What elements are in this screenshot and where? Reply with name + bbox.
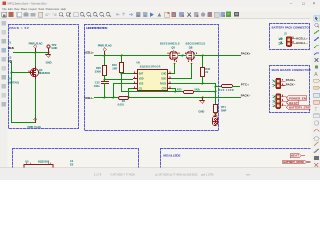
svg-text:Q5: Q5 [171,46,175,50]
toolbar icon library symbols [9,12,14,17]
junction PACK R30 [202,83,204,85]
toolbar icon zoom in [80,12,84,16]
toolbar icon bom [221,12,226,17]
right tool circle tool [314,121,318,125]
wire drain of Q3 [35,53,37,67]
junction R16 tap [121,55,123,57]
junction R30 tap [202,55,204,57]
toolbar icon zoom out [87,12,91,16]
svg-text:PWR_FLAG: PWR_FLAG [28,125,42,129]
svg-text:BQ29812RUGR: BQ29812RUGR [140,65,161,68]
svg-text:BATTERY PACK CONNECTO: BATTERY PACK CONNECTO [272,25,309,29]
toolbar icon run erc [150,13,154,17]
toolbar icon prefs [201,12,205,16]
right tool hier sheet [314,93,319,97]
svg-text:VBUS: VBUS [8,46,14,50]
toolbar icon undo [46,14,50,16]
svg-text:dx 247.0000 dy 77.4000 dist: dx 247.0000 dy 77.4000 dist 259.8310 [155,173,198,176]
wire source of Q3 down [35,79,37,123]
svg-text:HCELL−: HCELL− [296,41,308,45]
svg-text:NRF52_Battery_Board — Schemati: NRF52_Battery_Board — Schematic Editor [8,1,47,5]
toolbar icon save [2,12,7,17]
junction C15 bottom [104,97,106,99]
sheet box MAIN BOARD CONNECTOR [270,66,310,113]
svg-text:CTR: CTR [162,88,167,90]
svg-text:GND: GND [198,109,204,113]
right tool no connect [315,58,319,62]
menu bar [0,7,320,12]
pin numbers Q5 Q8 [168,53,197,62]
right tool delete tool [314,163,318,167]
svg-text:PWR_FLAG: PWR_FLAG [98,44,112,48]
toolbar icon annotate err [194,12,199,17]
wire CS riser [129,89,134,98]
toolbar icon find [59,13,62,16]
svg-text:✕: ✕ [313,1,316,5]
svg-text:BQ25306: BQ25306 [38,160,50,164]
toolbar icon zoom page [106,12,110,16]
node junction at PWR_FLAG tap [35,52,37,54]
pin stubs J2 [292,39,296,44]
left tool units in [1,39,6,44]
left tool cursor [1,57,6,62]
sheet box LI-ION PROTECTION [85,25,219,131]
right tool ruler tool [314,149,319,153]
right tool bus entry [314,53,319,55]
connector J3 [276,78,281,88]
ground symbol below TP2 [46,53,51,58]
left tool units mm [1,48,6,53]
IC U6 BQ29812RUGR body [138,70,168,91]
DNP cross marker [214,113,218,117]
toolbar icon nav up [122,13,125,16]
svg-text:BSC010NE2LS: BSC010NE2LS [160,42,180,45]
toolbar icon annotate clear [143,12,148,17]
wire VSS riser [114,84,134,98]
right tool arc tool [314,130,319,132]
wire PACK row [172,83,216,85]
title bar [0,0,320,7]
right tool pen tool [314,142,318,146]
svg-text:DNP: DNP [221,109,227,112]
gate stub arrows [173,63,192,65]
wire C15 down [104,84,106,98]
svg-text:GND: GND [46,60,52,64]
svg-text:U5: U5 [25,160,29,164]
wire R30 top [202,56,204,68]
pin number Q3 [29,71,30,73]
left tool hv lines [1,93,6,98]
svg-text:PACK: PACK [160,82,167,85]
toolbar icon paste [39,12,43,17]
left tool cross [1,66,6,71]
power flag PWR_FLAG (bottom) [34,118,37,123]
label HEAT (mcu) [290,154,301,158]
wire R30 bottom to PACK row [202,77,204,84]
transistor Q3 RLML6344 [30,67,39,79]
svg-text:542k: 542k [194,88,200,91]
svg-text:BATTERY_STATE: BATTERY_STATE [283,160,304,164]
thermistor RT1 DNP [214,105,218,113]
wire CTR stub [172,89,176,92]
pin marks J2 [279,38,283,45]
capacitor C15 100n [102,82,109,84]
toolbar icon print [24,13,29,16]
svg-text:330K: 330K [95,69,101,73]
junction mid FET [182,55,184,57]
schematic canvas [8,19,312,168]
right tool wire entry [314,46,319,48]
toolbar icon editor a [165,12,170,17]
wire FET right to PACK+ [195,55,241,57]
svg-text:grid 1.2700: grid 1.2700 [201,173,214,176]
svg-text:R26: R26 [96,66,101,70]
toolbar icon zoom fit [93,12,97,16]
right tool image tool [314,156,319,160]
pin numbers J2 [293,37,294,39]
svg-text:MCU & LEDS: MCU & LEDS [163,153,180,157]
label HEAT [286,100,298,104]
toolbar icon editor c [179,12,184,17]
pin names U6 [139,72,167,90]
svg-text:CS: CS [139,88,143,90]
wire R26 to C15 [104,76,106,82]
left toolbar [0,19,8,168]
pin arrows J3 J4 [275,82,277,107]
toolbar icon redraw [74,13,78,17]
toolbar icon new sheet [17,12,22,17]
svg-text:MAIN BOARD CONNECTOR: MAIN BOARD CONNECTOR [272,68,311,72]
right toolbar [311,15,320,168]
pin stubs J3 [281,81,286,85]
label BATTERY_STATE (mcu) [283,160,307,164]
resistor R2 0.001 shunt [119,97,129,100]
right tool polygon tool [314,136,319,140]
svg-text:U6: U6 [137,61,141,65]
left tool free angle [1,84,6,89]
svg-text:(WRTAG): (WRTAG) [8,81,19,85]
pin numbers U6 [134,71,170,88]
right tool wire tool [314,30,319,34]
svg-text:RT1: RT1 [221,106,226,109]
junction H2 tap [104,79,106,81]
svg-text:R23 100R: R23 100R [219,89,234,92]
wire ON to gate vertical [11,63,12,123]
svg-text:T: T [314,107,317,113]
testpoint TP2 GND [47,45,50,48]
left tool hierarchy [1,102,6,107]
label BATTERY_STATE [286,105,313,109]
wire RT1 to fuse [215,113,217,117]
junction GND tap [202,97,204,99]
left tool grid dots [1,30,6,35]
right tool select active [314,15,320,21]
svg-text:DSG: DSG [161,78,166,80]
svg-text:HEAT: HEAT [291,154,300,158]
svg-text:Q8: Q8 [189,46,193,50]
wire between FETs [178,55,186,57]
svg-text:C15: C15 [95,81,100,85]
wire CHG to gate Q5 [172,64,175,74]
wire R16 bottom to BAT and down [121,73,123,92]
resistor R23 100R [222,85,233,88]
toolbar icon editor b [171,12,176,17]
junction BAT drop [128,97,130,99]
svg-text:PACK−: PACK− [286,82,296,86]
toolbar icon annotate [136,12,141,17]
svg-text:100n: 100n [94,84,100,88]
wire rail 91 [122,91,216,93]
right tool highlight net [315,23,318,26]
left tool hidden pins [1,75,6,80]
sheet box BATTERY PACK CONNECTOR [270,24,310,50]
svg-text:BATTERY_STATE: BATTERY_STATE [289,106,313,110]
toolbar icon find replace [66,13,69,16]
toolbar icon pcb editor [226,12,231,17]
toolbar icon fields table [214,12,219,17]
pin arrows J2 [281,38,283,43]
status bar [0,168,320,180]
wire branch to R23 [216,86,222,88]
toolbar icon redo [52,14,56,16]
svg-text:POWER_EN: POWER_EN [289,96,306,100]
svg-text:Z 2.79: Z 2.79 [94,173,102,176]
junction R26 tap [104,55,106,57]
junction CTR rail [175,91,177,93]
svg-text:HEAT: HEAT [289,101,298,105]
svg-text:VDD: VDD [139,78,144,80]
svg-text:PACK+: PACK+ [241,52,251,56]
svg-text:HCELL+: HCELL+ [296,37,308,41]
sheet box VBUS [9,25,79,129]
svg-text:P1: P1 [8,40,12,44]
ground symbol box B [200,98,205,104]
svg-text:VCELL−: VCELL− [84,96,94,100]
svg-text:VBUS = 5V: VBUS = 5V [9,26,30,30]
resistor R25 542k [184,91,194,94]
right tool global label [314,79,320,82]
wire RT1 column [215,84,217,105]
wire VBUS rail [14,52,49,54]
wire bottom rail of sheet A [12,118,36,123]
toolbar icon nav back [116,13,120,16]
pin marks J3 [273,80,275,87]
connector J4 [276,94,281,109]
pin marks J4 [273,96,275,107]
svg-text:R25: R25 [177,88,182,91]
svg-text:X 247.0000 Y 77.4000: X 247.0000 Y 77.4000 [110,173,135,176]
wire H2 to chip VSS [105,79,133,81]
label POWER_EN [286,96,306,100]
svg-text:RLML6344: RLML6344 [39,71,51,75]
top toolbar [0,12,320,20]
svg-text:20R: 20R [112,66,117,70]
svg-text:PACK+: PACK+ [286,78,296,82]
svg-text:ES: ES [70,163,74,166]
wire VCELL+ rail [95,55,170,57]
toolbar icon zoom selection [100,12,104,16]
wire R16 top [121,56,123,63]
svg-text:VCELL+: VCELL+ [84,51,94,55]
svg-text:J6: J6 [8,77,11,81]
wire R26 top [104,56,106,66]
wire VCELL- rail [95,97,241,99]
toolbar icon nav fwd [129,13,133,16]
svg-text:BSC010NE2LS: BSC010NE2LS [186,42,206,45]
right tool hier label [314,86,320,89]
svg-text:mm: mm [246,173,250,176]
junction rail RT1 [215,91,217,93]
wire DSG to gate Q8 [172,64,192,79]
svg-text:CHG: CHG [161,73,166,75]
junction CS riser [113,97,115,99]
left tool grid [1,21,6,26]
window background chrome [0,0,320,180]
junction R23 branch [215,86,217,88]
wire gate of Q3 [12,72,30,74]
right tool rectangle tool [314,114,319,118]
wire R23 to PTC+ [233,86,240,88]
svg-text:PACK−: PACK− [241,93,251,97]
svg-text:VSS: VSS [139,83,144,85]
svg-text:LI-ION PROTECTION: LI-ION PROTECTION [86,26,108,30]
resistor R26 330K [103,66,107,76]
toolbar icon plot [31,13,36,16]
svg-text:BAT: BAT [139,72,144,75]
svg-text:0.001: 0.001 [118,103,125,106]
toolbar icon assign fp [208,12,213,17]
svg-text:PTC+: PTC+ [241,82,249,86]
resistor R30 2k [201,68,205,77]
svg-text:◻: ◻ [302,1,305,5]
right tool bus tool [314,37,319,41]
right tool sheet pin [314,100,319,104]
svg-text:File Edit View Place Inspe: File Edit View Place Inspect Tools Prefe… [3,7,67,11]
sheet box MCU & LEDS [161,149,314,175]
toolbar icon sym fields [187,13,191,17]
toolbar icon fp editor [234,12,239,17]
junction gate tap [11,72,13,74]
right tool junction tool [315,65,318,68]
toolbar icon sim [157,13,161,17]
pin stubs U6 [134,74,172,89]
junction at TP2/GND node [48,52,50,54]
fuse F1 [213,117,218,126]
resistor R16 20R [120,63,124,73]
pin stubs J4 [281,97,287,106]
svg-text:GND: GND [51,46,57,50]
sheet box charger (bottom left) [13,149,139,175]
